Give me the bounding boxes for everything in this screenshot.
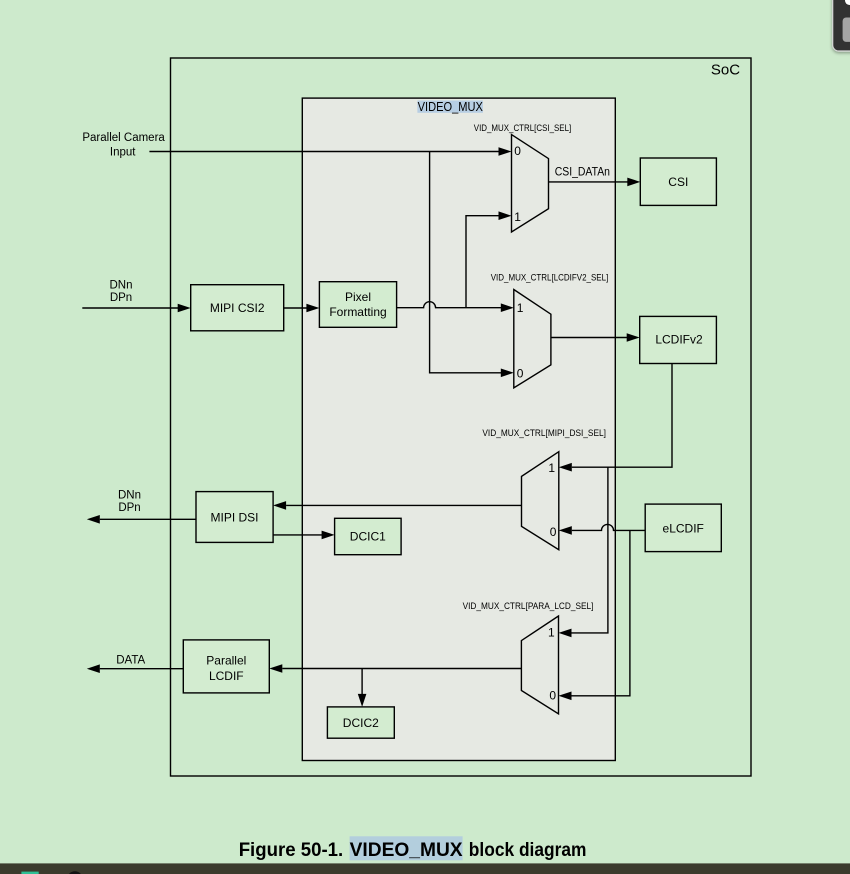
svg-text:Figure 50-1.: Figure 50-1. [239,839,344,861]
VIDEO_MUX container box [302,98,615,760]
taskbar icon dark circle [67,871,83,874]
wire: Pixel Formatting output with hop over camera branch, to mux U2 input 1 [397,302,502,308]
wire: mux U2 output to LCDIFv2 [551,337,627,339]
svg-text:Pixel: Pixel [345,290,371,304]
block eLCDIF [645,504,721,551]
block Parallel LCDIF [183,640,269,693]
svg-text:1: 1 [548,461,555,475]
wire: MIPI CSI2 to Pixel Formatting [284,307,307,309]
wire: MIPI DSI to DCIC1 [273,534,322,536]
svg-text:0: 0 [514,144,521,158]
top-right widget white notch [845,0,850,5]
block MIPI DSI [196,492,273,543]
svg-text:DCIC2: DCIC2 [343,716,379,730]
svg-text:VID_MUX_CTRL[LCDIFV2_SEL]: VID_MUX_CTRL[LCDIFV2_SEL] [491,273,609,283]
svg-text:DPn: DPn [118,502,140,514]
svg-text:LCDIF: LCDIF [209,669,244,683]
wire: DNn/DPn input to MIPI CSI2 [82,307,178,309]
svg-text:MIPI DSI: MIPI DSI [210,510,258,524]
svg-text:block diagram: block diagram [469,839,587,861]
node: camera branch T-junction, vertical to mux U2 input 0 [430,152,502,373]
svg-text:DATA: DATA [116,655,145,667]
VIDEO_MUX title highlight [417,101,483,113]
svg-text:Parallel: Parallel [206,654,246,668]
mux U1 (CSI_SEL) [512,135,549,232]
block CSI [640,158,716,205]
wire: branch down to mux U4 input 1 [572,467,608,633]
svg-text:0: 0 [550,525,557,539]
caption highlight [350,836,463,860]
wire: eLCDIF output with hop, to mux U3 input 0 [572,524,645,530]
wire: branch up to mux U1 input 1 [466,216,499,308]
block DCIC2 [327,707,394,738]
wire: branch down to mux U4 input 0 [572,530,630,695]
svg-text:DPn: DPn [110,292,132,304]
svg-text:DNn: DNn [109,280,132,292]
svg-text:eLCDIF: eLCDIF [663,522,704,536]
svg-text:DNn: DNn [118,490,141,502]
svg-text:1: 1 [517,301,524,315]
taskbar icon teal square [21,872,38,874]
wire: mux U4 output to Parallel LCDIF [282,668,521,670]
svg-text:0: 0 [549,688,556,702]
svg-text:1: 1 [548,625,555,639]
wire: mux U3 output to MIPI DSI [286,504,521,506]
svg-text:0: 0 [517,366,524,380]
block DCIC1 [335,518,402,554]
svg-text:VID_MUX_CTRL[PARA_LCD_SEL]: VID_MUX_CTRL[PARA_LCD_SEL] [463,601,594,611]
wire: LCDIFv2 feedback down and left to mux U3 input 1 [572,364,672,468]
svg-text:MIPI CSI2: MIPI CSI2 [210,301,265,315]
top-right widget gray key [843,18,850,42]
svg-text:Formatting: Formatting [329,305,386,319]
wire: mux U1 output to CSI, CSI_DATAn [549,181,628,183]
wire: MIPI DSI output left DNn/DPn [100,518,196,520]
wire: Parallel Camera Input to mux U1 input 0 [149,151,499,153]
svg-text:Parallel Camera: Parallel Camera [82,132,165,144]
wire: branch down to DCIC2 [361,669,363,695]
svg-text:VID_MUX_CTRL[CSI_SEL]: VID_MUX_CTRL[CSI_SEL] [474,123,571,133]
svg-text:LCDIFv2: LCDIFv2 [655,333,703,347]
block MIPI CSI2 [191,285,284,331]
SoC container box [171,58,752,776]
mux U3 (MIPI_DSI_SEL) mirrored [522,452,559,550]
svg-text:VID_MUX_CTRL[MIPI_DSI_SEL]: VID_MUX_CTRL[MIPI_DSI_SEL] [482,428,606,438]
wire: Parallel LCDIF output left DATA [100,668,184,670]
bottom taskbar [0,863,850,874]
wire: arrow into mux U2 input 0 [501,369,514,378]
mux U4 (PARA_LCD_SEL) mirrored [521,616,558,714]
block Pixel Formatting [319,282,396,328]
svg-text:CSI: CSI [668,175,688,189]
svg-text:DCIC1: DCIC1 [350,530,386,544]
svg-text:VIDEO_MUX: VIDEO_MUX [350,839,463,861]
svg-text:SoC: SoC [711,62,740,79]
top-right floating widget dark [833,0,850,51]
mux U2 (LCDIFV2_SEL) [514,290,551,388]
svg-text:Input: Input [110,146,136,158]
block LCDIFv2 [640,316,717,363]
svg-text:CSI_DATAn: CSI_DATAn [555,165,610,179]
svg-text:1: 1 [514,210,521,224]
svg-text:VIDEO_MUX: VIDEO_MUX [418,100,484,114]
